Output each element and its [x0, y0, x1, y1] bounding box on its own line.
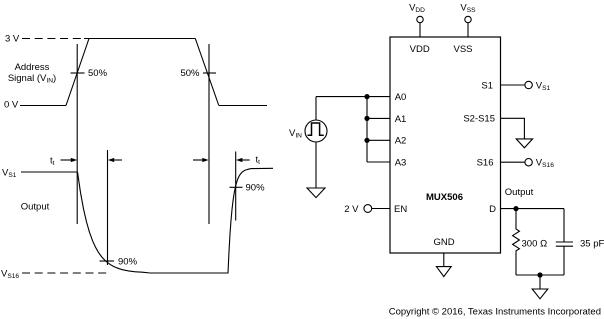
svg-text:MUX506: MUX506 [426, 192, 463, 203]
svg-text:VS1: VS1 [536, 80, 551, 92]
svg-text:3 V: 3 V [5, 34, 20, 45]
svg-text:VSS: VSS [453, 44, 472, 55]
svg-text:tt: tt [256, 155, 261, 167]
svg-text:Output: Output [21, 201, 50, 212]
svg-text:VS16: VS16 [536, 158, 554, 170]
svg-text:S1: S1 [481, 80, 493, 91]
svg-text:90%: 90% [118, 256, 138, 267]
svg-text:GND: GND [433, 237, 454, 248]
svg-text:Output: Output [505, 187, 534, 198]
svg-text:90%: 90% [246, 183, 266, 194]
svg-text:tt: tt [50, 155, 55, 167]
svg-text:Address: Address [15, 62, 50, 73]
svg-text:VDD: VDD [410, 44, 430, 55]
svg-text:50%: 50% [180, 68, 200, 79]
svg-text:Copyright © 2016, Texas Instru: Copyright © 2016, Texas Instruments Inco… [389, 307, 601, 318]
svg-text:S2-S15: S2-S15 [463, 114, 495, 125]
svg-text:A1: A1 [395, 114, 407, 125]
svg-text:VSS: VSS [460, 2, 476, 14]
svg-text:A3: A3 [395, 158, 407, 169]
svg-text:2 V: 2 V [344, 204, 359, 215]
svg-text:50%: 50% [88, 68, 108, 79]
svg-text:0 V: 0 V [4, 99, 19, 110]
svg-text:VDD: VDD [409, 2, 425, 14]
svg-text:S16: S16 [477, 158, 494, 169]
svg-text:D: D [489, 204, 496, 215]
svg-text:VS1: VS1 [2, 167, 17, 179]
svg-text:A0: A0 [395, 92, 407, 103]
svg-text:35 pF: 35 pF [580, 238, 604, 249]
svg-text:VS16: VS16 [1, 268, 19, 280]
svg-text:A2: A2 [395, 136, 407, 147]
svg-text:VIN: VIN [289, 128, 302, 140]
svg-text:Signal (VIN): Signal (VIN) [8, 73, 56, 85]
svg-text:300 Ω: 300 Ω [522, 238, 548, 249]
svg-text:EN: EN [394, 204, 407, 215]
